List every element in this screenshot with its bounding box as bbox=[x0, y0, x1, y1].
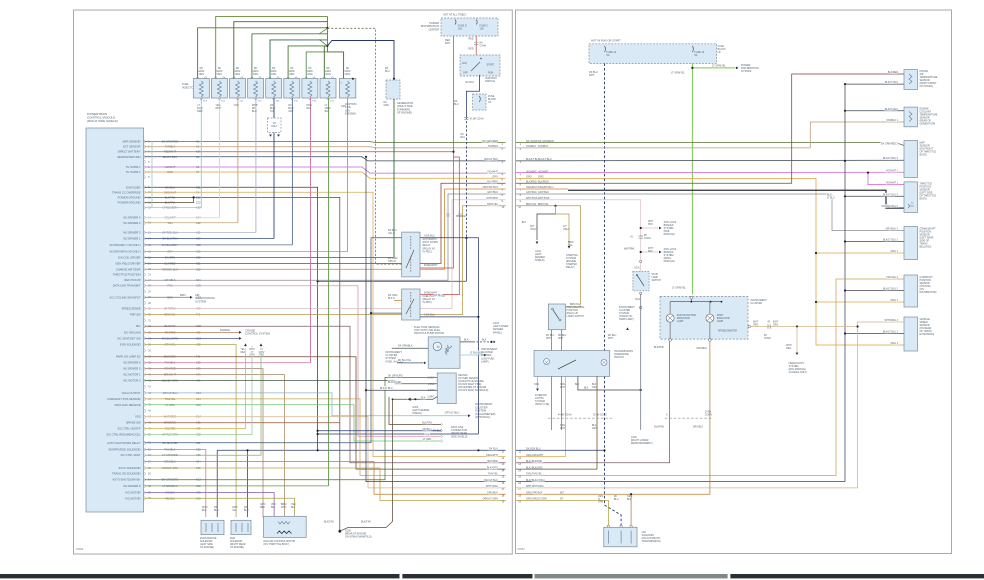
PCM pin 25 bracket bbox=[144, 284, 145, 288]
svg-text:IGN FUSED: IGN FUSED bbox=[126, 185, 141, 189]
svg-text:BLK/ORG: BLK/ORG bbox=[487, 466, 498, 469]
wire pin33 TAN/RED cruise bbox=[145, 331, 240, 333]
svg-text:TACH OUTPUT: TACH OUTPUT bbox=[122, 391, 141, 395]
wire BLK fuel pump ground bbox=[460, 341, 473, 343]
injector 4 coil symbol bbox=[254, 81, 258, 97]
svg-text:A/C CYCLING SW INPUT: A/C CYCLING SW INPUT bbox=[109, 295, 140, 299]
ignition switch pivot bbox=[480, 58, 482, 60]
od switch ORG/WHT down bbox=[565, 376, 567, 456]
wire DK BLU fuel pump output bbox=[420, 316, 478, 318]
svg-text:EVAP/PURGE SOLENOID: EVAP/PURGE SOLENOID bbox=[109, 448, 141, 452]
svg-text:CAMSHAFT POS SENSOR: CAMSHAFT POS SENSOR bbox=[107, 397, 140, 401]
injector 4 pin marks bbox=[250, 77, 261, 101]
WHT/PNK branch rwal bbox=[641, 251, 658, 253]
PCM pin 48 bracket bbox=[144, 421, 145, 425]
junction BLK/LT BLU y333.5 bbox=[844, 332, 846, 334]
svg-text:BLK/PNK: BLK/PNK bbox=[532, 460, 543, 463]
IAT internal squiggle bbox=[909, 74, 912, 84]
PCM pin 7 bracket bbox=[144, 170, 145, 174]
arrow trans oil temp bbox=[626, 327, 629, 330]
BLK/LT BLU branch y84.1 bbox=[845, 83, 904, 85]
wire pin13 LT BLU/BRN injector1 bbox=[145, 207, 202, 209]
power distribution center bbox=[441, 18, 498, 36]
svg-text:YEL/WHT: YEL/WHT bbox=[215, 104, 221, 110]
svg-text:INJ DRIVER 5: INJ DRIVER 5 bbox=[123, 367, 141, 371]
wire pin14 YEL/WHT injector2 bbox=[145, 217, 220, 219]
wire DK BLU/YEL branch fuel pump relay bbox=[371, 312, 402, 314]
wire pin15 TAN injector3 bbox=[145, 222, 238, 224]
junction DK BLU at x317 y450 bbox=[317, 449, 319, 451]
injector 5 supply wire up bbox=[270, 40, 327, 79]
svg-text:BLK/TAN: BLK/TAN bbox=[361, 521, 371, 524]
connector 8H marks ign feed bbox=[464, 117, 468, 119]
wire pin4 BLK/LT BLU sensor return to right page row3 bbox=[145, 157, 506, 161]
junction row18 solenoid bbox=[630, 493, 632, 495]
svg-text:INJ DRIVER 4: INJ DRIVER 4 bbox=[123, 216, 141, 220]
right page frame bbox=[516, 10, 952, 554]
PCM pin 33 bracket bbox=[144, 331, 145, 335]
row3 BLK/LT BLU sensor return to MAP bbox=[516, 159, 904, 162]
ignition switch bbox=[460, 55, 500, 76]
bottom bar segment 3 bbox=[535, 574, 728, 578]
row9 WHT/PNK to stop lamp chain bbox=[516, 200, 641, 272]
svg-text:ENABLE: ENABLE bbox=[220, 329, 230, 332]
svg-text:WHT/PNK: WHT/PNK bbox=[624, 249, 635, 251]
od switch internals bbox=[544, 358, 550, 364]
wire pin59 VIO/BLK IAC 4 bbox=[145, 493, 275, 518]
svg-text:LT GRN/YEL: LT GRN/YEL bbox=[672, 287, 686, 290]
svg-text:BRN: BRN bbox=[180, 293, 186, 297]
PCM pin 13 bracket bbox=[144, 206, 145, 210]
WHT/ORG cluster output bbox=[751, 326, 858, 328]
data link pin bracket 3 bbox=[441, 435, 443, 438]
row19 ORG/LT GRN to solenoid bbox=[516, 500, 608, 525]
injector 5 coil symbol bbox=[272, 81, 276, 97]
svg-text:IAC MOTOR 2: IAC MOTOR 2 bbox=[123, 379, 141, 383]
PCM pin 3 bracket bbox=[144, 150, 145, 154]
svg-text:34 8NCONN: 34 8NCONN bbox=[705, 412, 712, 417]
fuel level resistor symbol bbox=[446, 345, 449, 355]
arrow G102 ground bbox=[536, 242, 539, 245]
fuel pump relay internals bbox=[410, 292, 412, 317]
fuel pump motor symbol bbox=[433, 342, 441, 350]
row4 VIO/WHT to MAP bbox=[516, 171, 904, 173]
svg-text:DK BLU: DK BLU bbox=[465, 81, 474, 84]
wire DK GRN/BLK fuel pump feed bbox=[392, 347, 428, 349]
svg-text:TRANS OD SOLENOID: TRANS OD SOLENOID bbox=[112, 472, 141, 476]
svg-text:BLK/RED: BLK/RED bbox=[888, 71, 899, 74]
svg-text:ORG 1: ORG 1 bbox=[891, 299, 899, 302]
ignition coil winding symbol bbox=[346, 81, 350, 97]
svg-text:WHT/PNK: WHT/PNK bbox=[486, 197, 498, 200]
egr solenoid winding bbox=[236, 523, 248, 532]
inline connector C200 left bbox=[548, 417, 612, 419]
V8 only connector bbox=[268, 118, 282, 133]
svg-text:BLK/LT BLU 3: BLK/LT BLU 3 bbox=[883, 193, 899, 196]
wire RED/WHT from fuse D bbox=[420, 36, 454, 268]
harness crossing diagonal b bbox=[319, 40, 327, 46]
PCM pin 8 bracket bbox=[144, 175, 145, 179]
fuse 14 symbol bbox=[605, 46, 606, 52]
svg-text:S/C CTRL ON/OFF: S/C CTRL ON/OFF bbox=[117, 427, 140, 431]
svg-text:RUN: RUN bbox=[488, 72, 493, 75]
svg-text:ORG 1: ORG 1 bbox=[891, 250, 899, 253]
junction BLK/LT BLU y196.3 bbox=[844, 195, 846, 197]
intake air temperature sensor bbox=[904, 70, 918, 90]
svg-text:VIO/WHT 1: VIO/WHT 1 bbox=[886, 169, 899, 172]
arrow antilock RWAL bbox=[659, 251, 662, 254]
injector 1 return wire down bbox=[200, 98, 202, 208]
svg-text:DK BLU/YEL: DK BLU/YEL bbox=[398, 360, 412, 362]
svg-text:WHT/ORG 3: WHT/ORG 3 bbox=[884, 319, 898, 322]
PCM pin 51 bracket bbox=[144, 441, 145, 445]
wire DK BLU data link bbox=[318, 430, 441, 432]
bottom bar segment 1 bbox=[0, 574, 400, 578]
injector harness bus bbox=[326, 16, 328, 52]
wire pin44 TAN/YEL to right page row15 bbox=[145, 399, 506, 476]
row7 thick black continuation to TPS bbox=[568, 190, 904, 208]
injector 8 supply wire up bbox=[324, 46, 327, 79]
PCM pin 57 bracket bbox=[144, 478, 145, 482]
arrow interior lights bbox=[536, 389, 539, 392]
splice circle stop lamp bbox=[639, 306, 642, 309]
camshaft position sensor bbox=[904, 275, 918, 307]
od switch BLK/ORG down bbox=[596, 376, 598, 469]
fuel injector 8 bbox=[320, 79, 336, 99]
wire LT GRN/YEL fuse16 down bbox=[691, 63, 693, 294]
svg-text:THROTTLE POSITION: THROTTLE POSITION bbox=[113, 273, 141, 277]
svg-text:ORG: ORG bbox=[534, 384, 539, 386]
svg-text:BLK/LT BLU: BLK/LT BLU bbox=[484, 158, 498, 161]
arrow to air conditioning system bbox=[190, 296, 193, 299]
junction VIO/WHT bbox=[867, 172, 869, 174]
wire DK BLU solenoid feed bus bbox=[217, 449, 505, 451]
TAN/YEL camshaft feed bbox=[516, 279, 904, 475]
svg-text:INJ DRIVER 8 (V8 ONLY): INJ DRIVER 8 (V8 ONLY) bbox=[110, 250, 141, 254]
PCM pin 46 bracket bbox=[144, 409, 145, 413]
arrow headlights system bbox=[796, 353, 799, 356]
park/neutral position switch bbox=[548, 304, 565, 330]
arrow speed control 3 bbox=[260, 343, 263, 346]
row11 DK BLU to ignition feed bbox=[516, 449, 605, 451]
svg-text:BLACK/GRN: BLACK/GRN bbox=[388, 381, 402, 384]
harness crossing diagonal a bbox=[319, 28, 327, 34]
svg-text:ORG/LT GRN: ORG/LT GRN bbox=[483, 498, 499, 501]
injector 1 coil symbol bbox=[199, 81, 203, 97]
row14 BLK/ORG to od switch bbox=[516, 468, 597, 470]
svg-text:ORG/DK BLU 2: ORG/DK BLU 2 bbox=[881, 205, 898, 208]
PCM pin 4 bracket bbox=[144, 155, 145, 159]
PCM pin 20 bracket bbox=[144, 256, 145, 260]
crankshaft position sensor bbox=[904, 227, 918, 260]
svg-text:BLK/LT BLU: BLK/LT BLU bbox=[885, 81, 898, 84]
svg-text:BLK/PNK: BLK/PNK bbox=[654, 427, 664, 429]
wire BLK dashed to ground bbox=[473, 341, 491, 343]
fuel tank sending unit bbox=[428, 337, 460, 368]
svg-text:TAN/YEL: TAN/YEL bbox=[532, 473, 542, 476]
svg-text:CHARGE AIR TEMP: CHARGE AIR TEMP bbox=[116, 267, 141, 271]
shift lamp feed bbox=[709, 302, 711, 314]
wire pin40 BRN/WHT IAC 3 bbox=[145, 375, 285, 517]
wire pin32 BLK/PNK MIL to right page row13 bbox=[145, 326, 506, 463]
wire pin18 DK BLU/GRY injector6 bbox=[145, 244, 293, 246]
fuel injector 2 bbox=[211, 79, 227, 99]
wire pin3 RED/WHT to splice with PDC red feed bbox=[145, 151, 454, 153]
fuel injector 4 bbox=[248, 79, 264, 99]
PCM pin 43 bracket bbox=[144, 391, 145, 395]
injector 4 supply wire up bbox=[252, 34, 328, 79]
svg-text:A/T: A/T bbox=[560, 498, 564, 501]
transmission overdrive switch bbox=[534, 351, 610, 377]
cluster top pin bbox=[690, 297, 693, 300]
junction DK BLU/YEL bbox=[370, 312, 372, 314]
svg-text:AUTO SHUTDOWN B+: AUTO SHUTDOWN B+ bbox=[112, 478, 141, 482]
svg-text:IAC MOTOR: IAC MOTOR bbox=[125, 496, 140, 500]
svg-text:GEN FIELD DRIVER: GEN FIELD DRIVER bbox=[115, 261, 140, 265]
arrow speed control 1 bbox=[244, 343, 247, 346]
svg-text:ORG/BLK: ORG/BLK bbox=[487, 491, 498, 494]
PCM pin 39 bracket bbox=[144, 367, 145, 371]
svg-text:DIRECT BATTERY: DIRECT BATTERY bbox=[118, 150, 141, 154]
junction BLK/LT BLU y84.1 bbox=[844, 83, 846, 85]
svg-text:BLK/LT BLU 2: BLK/LT BLU 2 bbox=[883, 331, 899, 334]
wire DK BLU solid below junction bbox=[465, 238, 467, 281]
wire BLK/LT BLU branch to right page row16 bbox=[366, 157, 506, 482]
PCM pin 45 bracket bbox=[144, 403, 145, 407]
arrow antilock RAB bbox=[659, 227, 662, 230]
G302 ground diamond bbox=[408, 398, 411, 401]
wire pin2 TAN/BLK to right page row2 bbox=[145, 147, 506, 148]
svg-text:DK GRN/ORG: DK GRN/ORG bbox=[388, 375, 403, 377]
injector 3 coil symbol bbox=[236, 81, 240, 97]
wire DK BLU harness to generator bbox=[327, 41, 394, 79]
row5 ORG bus to distributor sensors bbox=[516, 178, 904, 345]
injector 2 pin marks bbox=[214, 77, 225, 101]
junction LT GRN/YEL bbox=[691, 67, 693, 69]
data link pin bracket 2 bbox=[441, 429, 443, 432]
svg-text:IAC MOTOR: IAC MOTOR bbox=[125, 491, 140, 495]
svg-text:TAN/BLK 1: TAN/BLK 1 bbox=[886, 119, 898, 122]
PCM pin 16 bracket bbox=[144, 231, 145, 235]
pnp switch internals bbox=[552, 308, 554, 310]
wire pin29 WHT/PNK to right page row9 bbox=[145, 200, 506, 309]
wire pin54 ORG/BLK to right page row18 bbox=[145, 462, 506, 495]
svg-text:RED: RED bbox=[469, 38, 474, 41]
svg-text:ORG/BLK: ORG/BLK bbox=[696, 347, 707, 350]
wire pin48 BRN/RED stub bbox=[145, 422, 341, 424]
WHT/ORG vss feed bbox=[516, 322, 904, 488]
svg-text:DK GRN/RED: DK GRN/RED bbox=[482, 140, 498, 143]
svg-text:8H COAN: 8H COAN bbox=[456, 215, 467, 218]
junction BRN/YEL bbox=[554, 205, 556, 207]
junction BLK/TAN G302 join bbox=[392, 398, 394, 400]
junction row11 dashed bbox=[603, 449, 605, 451]
svg-text:INJ DRIVER 2: INJ DRIVER 2 bbox=[123, 221, 141, 225]
data link pin bracket 1 bbox=[441, 423, 443, 426]
shift indicator lamp bbox=[706, 314, 714, 322]
svg-text:97064: 97064 bbox=[76, 547, 84, 551]
svg-text:VIO/WHT 1: VIO/WHT 1 bbox=[886, 182, 899, 185]
solenoid pin circles bbox=[607, 525, 609, 527]
VIO/WHT branch TPS bbox=[868, 173, 904, 185]
PCM pin 11 bracket bbox=[144, 196, 145, 200]
row12 ORG/WHT to od switch bbox=[516, 456, 566, 458]
BLK/LT BLU branch y241.5 bbox=[845, 241, 904, 243]
wire pin6 VIO/WHT 5v supply to right page row4 bbox=[145, 167, 506, 173]
wire pin45 LT GRN data link receive bbox=[145, 405, 442, 441]
row10 BRN/YEL to PNP switch bbox=[516, 206, 581, 307]
PCM pin 26 bracket bbox=[144, 290, 145, 294]
wire DK GRN generator to pin20 bbox=[393, 99, 395, 258]
fuel injector 7 bbox=[302, 79, 318, 99]
svg-text:BLK/LT BLU: BLK/LT BLU bbox=[532, 479, 545, 482]
junction BLK stop lamp chain bbox=[640, 389, 642, 391]
connector 8H marks on red wire bbox=[474, 43, 478, 45]
svg-text:44 8H COAN: 44 8H COAN bbox=[558, 414, 572, 417]
svg-text:97067: 97067 bbox=[518, 547, 526, 551]
svg-text:RED: RED bbox=[469, 47, 474, 50]
svg-text:POWER GROUND: POWER GROUND bbox=[118, 195, 141, 199]
stop lamp switch pin bottom bbox=[640, 292, 642, 294]
wire pin51 DK BLU/YEL relay coils bbox=[145, 238, 402, 443]
PCM pin 9 bracket bbox=[144, 186, 145, 190]
svg-text:BLK/PNK: BLK/PNK bbox=[654, 346, 665, 349]
svg-text:INJ DRIVER 6: INJ DRIVER 6 bbox=[123, 361, 141, 365]
row1 DK GRN/RED to MAP sensor bbox=[516, 143, 904, 146]
injector 5 pin marks bbox=[269, 77, 280, 101]
cluster right pin bbox=[748, 325, 751, 328]
arrow fuel pump ground bbox=[493, 341, 495, 344]
svg-text:SENSOR RETURN: SENSOR RETURN bbox=[117, 155, 140, 159]
data link pin bracket 4 bbox=[441, 439, 443, 442]
junction BLK/LT BLU y110.8 bbox=[844, 110, 846, 112]
BLK/LT BLU branch y110.8 bbox=[845, 110, 904, 112]
wire BLK/TAN ground return bbox=[340, 399, 408, 531]
PCM pin 41 bracket bbox=[144, 379, 145, 383]
svg-text:MAP SENSOR: MAP SENSOR bbox=[123, 140, 141, 144]
svg-text:VSS: VSS bbox=[135, 415, 141, 419]
svg-text:POWER GROUND: POWER GROUND bbox=[118, 201, 141, 205]
svg-text:ORGWHT: ORGWHT bbox=[560, 425, 566, 430]
svg-text:A DK BLU: A DK BLU bbox=[424, 314, 435, 317]
PCM pin 35 bracket bbox=[144, 343, 145, 347]
evaporative solenoid bbox=[201, 520, 224, 534]
svg-text:BRN/WHT: BRN/WHT bbox=[281, 504, 287, 509]
wire pin11 BLK/TAN power ground to G100 bbox=[145, 197, 340, 531]
svg-text:S/C VACUUM: S/C VACUUM bbox=[124, 330, 141, 334]
svg-text:NCA: NCA bbox=[635, 298, 640, 301]
svg-text:LT GRN/YEL: LT GRN/YEL bbox=[671, 72, 685, 75]
svg-text:BLK/TAN: BLK/TAN bbox=[422, 422, 432, 425]
svg-text:M/T: M/T bbox=[560, 492, 565, 494]
svg-text:YEL/RED: YEL/RED bbox=[241, 349, 246, 354]
injector 1 supply wire up bbox=[198, 28, 328, 79]
wire pin50 WHT/LT GRN speed control servo bbox=[145, 346, 253, 435]
junction WHT/ORG vss join bbox=[857, 325, 859, 327]
wire pin53 LT GRN/RED speed control servo bbox=[145, 346, 262, 455]
svg-text:BLK/PNK: BLK/PNK bbox=[487, 460, 498, 463]
svg-text:WHTORG: WHTORG bbox=[753, 322, 759, 327]
PCM pin 6 bracket bbox=[144, 165, 145, 169]
junction DK BLU at x317 y280 bbox=[317, 280, 319, 282]
svg-text:BLK/RED: BLK/RED bbox=[487, 181, 498, 184]
cluster bottom pin a bbox=[669, 339, 672, 342]
v8 connector arrow b bbox=[277, 135, 280, 137]
PCM pin 55 bracket bbox=[144, 466, 145, 470]
svg-text:VIO/BLK: VIO/BLK bbox=[271, 504, 276, 509]
ASD relay internals bbox=[410, 236, 412, 272]
junction fuel ground bbox=[490, 341, 492, 343]
svg-text:GRY/BLK: GRY/BLK bbox=[487, 191, 498, 194]
wire pin30 BRN/YEL to right page row10 bbox=[145, 206, 506, 315]
wire DK BLU/YEL fuel gauge bbox=[397, 362, 424, 364]
svg-text:SVCC SOLENOID: SVCC SOLENOID bbox=[118, 466, 140, 470]
svg-text:INJ DRIVER 8: INJ DRIVER 8 bbox=[123, 484, 141, 488]
PCM pin 50 bracket bbox=[144, 433, 145, 437]
TPS potentiometer symbol bbox=[908, 202, 914, 208]
stop lamp switch bbox=[633, 272, 649, 291]
wire pin55 ORG/LT GRN to right page row19 bbox=[145, 468, 506, 500]
wire pin7 ORG to right page row5 bbox=[145, 172, 506, 178]
wire pin20 DK GRN generator field bbox=[145, 256, 394, 258]
svg-text:INJ DRIVER 3: INJ DRIVER 3 bbox=[123, 231, 141, 235]
svg-text:20 8H COAN: 20 8H COAN bbox=[593, 414, 607, 417]
instrument cluster bbox=[660, 296, 748, 339]
shift lamp wire down bbox=[709, 322, 711, 339]
wire pin21 BLK/RED to right page row6 bbox=[145, 183, 506, 263]
od switch ORG interior lights bbox=[537, 376, 539, 388]
wire DK BLU dashed ignition feed down bbox=[465, 121, 467, 238]
svg-text:DK GRN/RED 2: DK GRN/RED 2 bbox=[881, 142, 899, 145]
junction injector harness upper bbox=[326, 27, 328, 29]
svg-text:PNP SW: PNP SW bbox=[130, 313, 141, 317]
connector 41 marks bbox=[639, 236, 644, 238]
junction DK BLU at x478 y450 bbox=[477, 449, 479, 451]
injector 6 coil symbol bbox=[290, 81, 294, 97]
svg-text:S/C VENT/SET SW: S/C VENT/SET SW bbox=[117, 336, 141, 340]
svg-text:5V SUPPLY: 5V SUPPLY bbox=[126, 165, 141, 169]
fuel injector 3 bbox=[230, 79, 246, 99]
G302 node bbox=[414, 398, 416, 400]
BLK/LT BLU bus vertical bbox=[844, 84, 846, 482]
wire pin22 ORG/DK BLU to right page row7 bbox=[145, 189, 506, 269]
wire pin24 GRY/BLK ref pickup to right page row8 bbox=[145, 194, 506, 280]
PCM pin 36 bracket bbox=[144, 349, 145, 353]
injector 6 supply wire up bbox=[288, 46, 327, 79]
PCM pin 27 bracket bbox=[144, 296, 145, 300]
PCM pin 29 bracket bbox=[144, 307, 145, 311]
cluster rail drop from pin bbox=[690, 299, 692, 302]
arrow power distribution system bbox=[736, 67, 739, 70]
svg-text:SPEED SENSE: SPEED SENSE bbox=[122, 307, 141, 311]
BRN/YEL drop to splice bbox=[555, 206, 557, 214]
svg-text:S/C CTRL RESUME/ACCEL: S/C CTRL RESUME/ACCEL bbox=[106, 433, 141, 437]
svg-text:ORG/BLK: ORG/BLK bbox=[693, 427, 704, 429]
BLK/LT BLU branch y333.5 bbox=[845, 333, 904, 335]
fuse block run/start bbox=[589, 44, 717, 64]
wire DK BLU evap solenoid drop bbox=[216, 450, 218, 517]
injector 1 pin marks bbox=[196, 77, 207, 101]
wire DK BLU ignition switch output bbox=[466, 75, 479, 119]
cluster bottom pin b bbox=[709, 339, 712, 342]
svg-text:M: M bbox=[437, 345, 440, 349]
svg-text:DATA LINK RECEIVE: DATA LINK RECEIVE bbox=[115, 403, 141, 407]
arrow fuel gauge bbox=[424, 362, 426, 365]
inline connector C200 right bbox=[665, 417, 712, 419]
row7 ORG/DK BLU bbox=[516, 188, 568, 190]
PCM pin 38 bracket bbox=[144, 361, 145, 365]
PCM pin 18 bracket bbox=[144, 243, 145, 247]
